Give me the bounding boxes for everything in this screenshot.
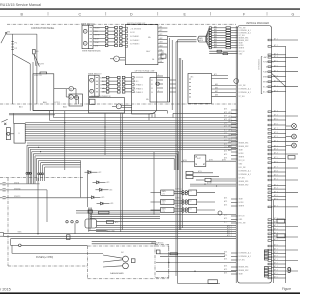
connector box B (89, 75, 100, 96)
fuse row 1 (0, 182, 40, 185)
svg-text:D: D (130, 12, 133, 16)
svg-text:BLUE: BLUE (95, 38, 99, 40)
connector pin column 2 (115, 26, 126, 46)
svg-text:V2: V2 (151, 84, 153, 86)
column tick (210, 12, 212, 16)
fuses panel dash-dot bottom (8, 265, 88, 267)
mid box left (150, 78, 170, 103)
wire flag feed 1 (178, 39, 197, 41)
lamp circle R3 (286, 143, 297, 148)
VM left outside stubs (224, 108, 238, 275)
bottom-left small box (67, 235, 71, 240)
gauge feed wire (12, 245, 103, 253)
connector pin column 3 (102, 76, 118, 93)
junction circle mid (156, 82, 159, 85)
left fuse box B (6, 124, 25, 144)
svg-text:VEHICLE MANAGER: VEHICLE MANAGER (246, 22, 269, 25)
fuse F1 (11, 41, 17, 44)
svg-text:SW/TB: SW/TB (14, 182, 19, 184)
wire top-left horizontal (6, 33, 37, 35)
long vertical pair p2 (177, 40, 179, 284)
contactor panel dash-dot top (7, 23, 236, 25)
flag feed wire 3 (167, 35, 196, 37)
svg-text:SW/5: SW/5 (18, 232, 22, 234)
svg-text:K2: K2 (190, 201, 192, 203)
wire at 230 (88, 230, 115, 233)
column tick (266, 12, 268, 16)
connector pin column 1 (93, 26, 115, 46)
VM internal right labels upper (263, 56, 274, 93)
svg-text:GL RO: GL RO (130, 32, 136, 34)
contactor KS coil (33, 49, 40, 54)
wire pair above bottom bus (76, 210, 160, 218)
long vertical pair p1 (175, 42, 177, 276)
lift motor low box (132, 73, 157, 115)
horizontal bus wires lower (corner fans) (26, 111, 236, 198)
vertical wire x47 lower-left (46, 190, 48, 222)
svg-text:3: 3 (158, 90, 159, 92)
motor H box (69, 94, 83, 106)
VM left pin labels (239, 27, 251, 275)
svg-text:SW/GND: SW/GND (14, 188, 21, 190)
svg-text:V4: V4 (151, 92, 153, 94)
svg-text:MB: MB (160, 53, 162, 55)
svg-text:CT2: CT2 (162, 203, 165, 205)
diode cluster (85, 171, 114, 205)
color labels column 2 (100, 76, 106, 93)
svg-text:WIRE HARNESS(M): WIRE HARNESS(M) (82, 50, 101, 53)
long vertical wire at VM left (235, 26, 237, 283)
svg-text:WHITE: WHITE (95, 35, 100, 37)
column tick (105, 12, 107, 16)
footer rule (0, 292, 300, 294)
dashed small box bottom (151, 242, 169, 278)
svg-text:GL GROUND: GL GROUND (134, 77, 144, 79)
horizontal bus wires upper (9, 111, 236, 143)
fuse row 3 (0, 196, 88, 199)
extra fan rows (209, 50, 237, 55)
hatched connector block 2 (264, 267, 268, 277)
main harness flag (198, 36, 206, 42)
wire coils link (54, 89, 79, 104)
color labels column (95, 27, 101, 48)
diode cluster drop bundle (89, 208, 91, 232)
svg-text:KEY_IN: KEY_IN (239, 216, 246, 218)
connector box A (82, 25, 93, 49)
svg-text:UP_SEL: UP_SEL (239, 178, 245, 180)
inner box top tab (40, 72, 47, 74)
small box EH mid (161, 52, 166, 58)
svg-text:SW/UPS: SW/UPS (14, 196, 20, 198)
svg-text:HORN: HORN (239, 153, 245, 155)
lamp circle bottom-left (11, 239, 88, 247)
VM right output rows (268, 38, 298, 279)
svg-text:CONTACTOR PANEL: CONTACTOR PANEL (31, 27, 55, 30)
rounded relay box bottom (85, 219, 236, 228)
wire vertical main left (36, 34, 38, 104)
wire under relay grid (90, 211, 236, 215)
svg-text:V3: V3 (151, 88, 153, 90)
wire flag feed 2 (176, 41, 197, 43)
key switch S1 (1, 32, 10, 44)
EH box (181, 155, 236, 167)
long vertical pair p4 (180, 58, 182, 230)
wire diagonal contactor links (13, 54, 45, 111)
component box above relay grid (196, 178, 236, 181)
fuse row 2 (0, 188, 47, 191)
svg-text:UP_SEL: UP_SEL (239, 96, 245, 98)
relay grid (151, 187, 216, 213)
svg-text:9: 9 (287, 266, 292, 275)
junction circle on VM-left vertical (234, 79, 239, 84)
svg-text:B: B (19, 133, 20, 135)
svg-text:RU13/15 Service Manual: RU13/15 Service Manual (0, 3, 41, 7)
bus stub labels right (228, 142, 231, 152)
long vertical pair p3 (178, 58, 180, 230)
controller bracket (257, 57, 262, 94)
svg-text:KS/CTR: KS/CTR (37, 64, 45, 66)
left edge stubs bottom (0, 232, 22, 237)
small stacked boxes below EH (186, 170, 219, 179)
svg-text:DASHBOARD: DASHBOARD (110, 272, 124, 275)
lift box right stubs (157, 74, 163, 92)
svg-text:V1: V1 (151, 80, 153, 82)
svg-text:K3: K3 (190, 209, 192, 211)
svg-text:GL RO: GL RO (134, 81, 140, 83)
bottom L wire (178, 280, 220, 284)
three small circles row (66, 221, 78, 223)
mid box right output wires (212, 73, 237, 97)
svg-text:MOTOR NUMBER(S): MOTOR NUMBER(S) (92, 96, 112, 98)
svg-text:AB-I: AB-I (43, 101, 47, 104)
long vertical pair p5 (181, 60, 183, 228)
switch to left box (1, 113, 13, 125)
long vertical wire right B (273, 200, 275, 283)
svg-text:UP_SEL: UP_SEL (239, 260, 245, 262)
gauges circles (103, 252, 135, 269)
vertical wire left of relay grid (153, 152, 155, 215)
wire vertical x33 lower (32, 62, 34, 111)
svg-text:KS/CTR: KS/CTR (34, 75, 42, 77)
svg-text:HYD_SW: HYD_SW (239, 27, 246, 29)
svg-text:CT3: CT3 (162, 211, 165, 213)
vehicle manager box U1 (238, 26, 272, 284)
svg-text:1: 1 (158, 74, 159, 76)
svg-text:G: G (292, 12, 295, 16)
svg-text:EH17: EH17 (197, 158, 201, 160)
connector pin column 4 (118, 76, 132, 93)
svg-text:KEY_IN: KEY_IN (239, 51, 246, 53)
svg-text:HORN: HORN (239, 45, 245, 47)
mid box left output wires (170, 80, 177, 92)
vertical x75 (74, 223, 76, 234)
dashboard panel dashed border (88, 246, 169, 279)
svg-text:HORN: HORN (239, 202, 245, 204)
column tick (47, 12, 49, 16)
motor M circle (110, 56, 125, 62)
lift motor pin labels (134, 77, 150, 101)
bus junction dots (38, 122, 180, 152)
lamp circle R2 (286, 134, 297, 139)
header thin rule (0, 15, 300, 17)
header rule (0, 8, 300, 9)
fuse F2 (11, 47, 17, 50)
vertical pair from pump box to bottom bus (121, 113, 123, 232)
wire vertical fuse branch (12, 34, 14, 104)
fuses panel dash-dot top (0, 177, 83, 179)
harness fan wires (206, 25, 238, 48)
svg-text:K1: K1 (190, 191, 192, 193)
svg-text:AB-I: AB-I (63, 106, 67, 109)
long vertical wire m1 (166, 36, 168, 102)
pump unit box (89, 98, 125, 113)
svg-text:Figure: Figure (282, 287, 291, 291)
lamp circle R1 (286, 124, 297, 129)
bottom bus wires (4, 225, 237, 244)
multiple power unit box (125, 23, 158, 65)
svg-text:CONTROLLER: CONTROLLER (257, 59, 259, 71)
svg-text:C: C (79, 12, 82, 16)
svg-text:FUSES(+/-5HD): FUSES(+/-5HD) (36, 256, 53, 259)
long vertical wire m3 (171, 40, 173, 110)
diagonal wire VM right (272, 73, 286, 86)
hatched connector block 1 (264, 250, 268, 260)
svg-text:P: P (118, 106, 119, 108)
svg-text:HYD_SW: HYD_SW (239, 85, 246, 87)
svg-text:HYD_SW: HYD_SW (239, 167, 246, 169)
svg-text:KEY_IN: KEY_IN (239, 160, 246, 162)
long vertical wire right A (285, 46, 287, 283)
long vertical wire m2 (169, 38, 171, 102)
pump P circle (112, 104, 132, 109)
contactor panel dash-dot bottom (0, 103, 236, 105)
multiple power output wires (158, 25, 168, 63)
coil AB circle 1 (69, 87, 73, 91)
svg-text:r 2015: r 2015 (0, 288, 11, 292)
fuses panel dash-dot left (7, 178, 9, 266)
vertical wire x38 lower-left (37, 178, 39, 234)
mid box right (188, 74, 212, 104)
right small boxes (277, 156, 295, 238)
contactor panel inner box (33, 74, 54, 111)
bus right end stubs (229, 111, 232, 152)
svg-text:+ GL GROUND: + GL GROUND (130, 28, 142, 30)
svg-text:LP2/1: LP2/1 (55, 102, 61, 104)
diode cluster vertical (87, 170, 89, 207)
wires above relay grid (190, 182, 236, 187)
coil AB circle 2 (69, 95, 73, 99)
column tick (157, 12, 159, 16)
junction dot bottom-left (37, 233, 38, 234)
wires from dashed box (156, 253, 236, 272)
svg-text:CT1: CT1 (162, 194, 165, 196)
svg-text:HYD_SW: HYD_SW (239, 223, 246, 225)
svg-text:MULTIPLE POWER UNIT: MULTIPLE POWER UNIT (127, 23, 145, 25)
svg-text:SM: SM (7, 32, 10, 34)
svg-text:UP_SEL: UP_SEL (239, 35, 245, 37)
